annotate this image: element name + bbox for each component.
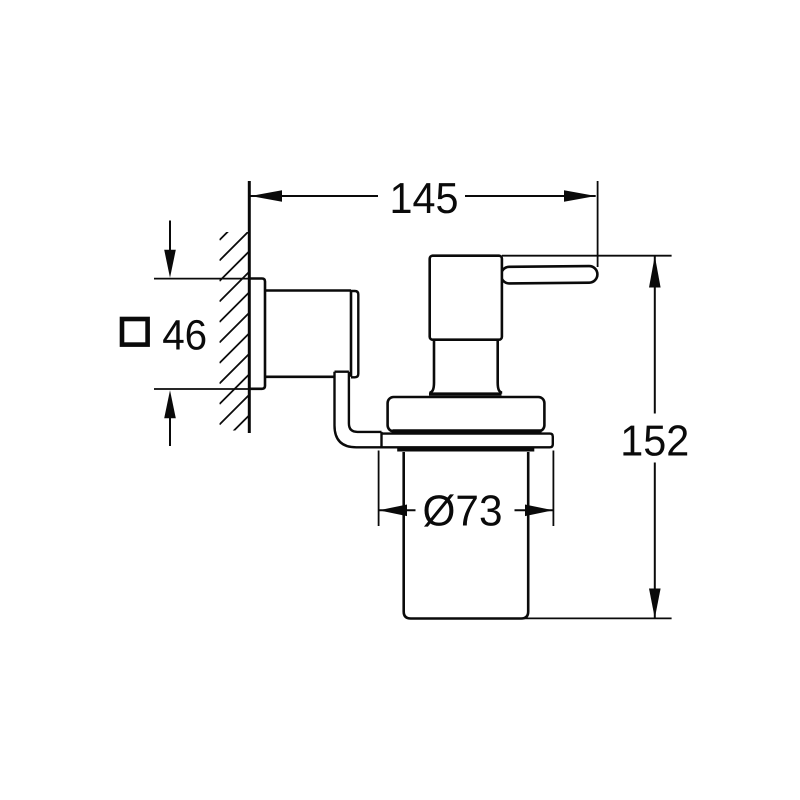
ext line 152 bottom — [520, 617, 672, 619]
ext line 46 top (collinear with plate top) — [154, 278, 248, 280]
ext line d73 left — [378, 451, 380, 527]
wall line — [248, 181, 251, 433]
dim d73 right arrow — [525, 505, 553, 517]
dim d73 left arrow — [379, 505, 407, 517]
dim d73 line — [379, 509, 416, 511]
ext line 46 bottom — [154, 388, 248, 390]
L-bracket strap — [335, 372, 382, 448]
ext line d73 right — [552, 451, 554, 527]
dim 46 bottom arrow — [169, 416, 171, 446]
dim 145 right arrow — [564, 190, 596, 201]
ext line 152 top — [502, 255, 672, 257]
svg-text:152: 152 — [620, 417, 689, 465]
pump neck — [430, 340, 503, 393]
bottle collar ring — [388, 397, 545, 431]
collar bottom bold edge — [393, 429, 542, 433]
ext line 145 right — [597, 181, 599, 267]
wall hatching — [220, 211, 249, 466]
dim 46 top arrow — [169, 221, 171, 253]
dim 152 top arrow — [649, 256, 661, 288]
dim 145 left arrow — [250, 190, 282, 201]
holder arm — [265, 291, 351, 377]
glass body — [404, 452, 529, 619]
glass shoulder bold bar — [397, 448, 534, 451]
square symbol — [122, 319, 148, 345]
dim 152 line — [654, 256, 656, 414]
pump base bold bar — [429, 392, 502, 395]
arm end cap — [351, 291, 358, 377]
wall plate (square escutcheon) — [250, 279, 266, 389]
dim 152 bottom arrow — [649, 589, 661, 619]
holder ring plate — [382, 432, 553, 447]
svg-text:46: 46 — [162, 313, 207, 360]
svg-text:Ø73: Ø73 — [423, 488, 503, 536]
pump head — [430, 256, 502, 340]
svg-text:145: 145 — [390, 175, 459, 223]
dim 145 line — [250, 195, 378, 197]
pump lever — [501, 266, 598, 284]
